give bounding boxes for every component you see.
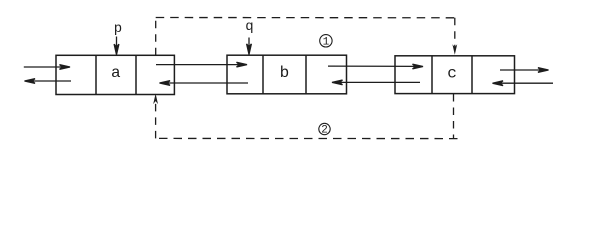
svg-text:a: a <box>111 64 121 82</box>
svg-text:2: 2 <box>321 125 328 137</box>
svg-text:1: 1 <box>323 37 330 49</box>
svg-text:b: b <box>280 64 290 82</box>
svg-text:c: c <box>447 64 457 82</box>
svg-text:q: q <box>245 19 253 35</box>
svg-text:p: p <box>114 21 122 37</box>
